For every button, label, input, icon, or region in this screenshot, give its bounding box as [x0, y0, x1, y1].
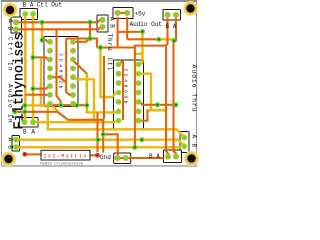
svg-text:+5v: +5v: [135, 11, 146, 18]
op-amp U2 pad left: [116, 71, 121, 76]
op-amp U2 pad left: [116, 109, 121, 114]
wire yellow pad2R jog: [141, 74, 152, 111]
op-amp U1 pad right: [71, 48, 76, 53]
wire orange ctl in A y22.3: [18, 20, 103, 23]
wire yellow y139.7 (Audio In A): [18, 140, 184, 146]
svg-text:B: B: [23, 128, 27, 135]
svg-text:Thru: Thru: [106, 34, 113, 52]
connector J4 +5v box: [113, 8, 133, 19]
op-amp U1 pad right: [71, 84, 76, 89]
svg-text:Gnd: Gnd: [100, 154, 111, 161]
wire orange audio out B stub: [166, 18, 168, 46]
svg-text:Ctl: Ctl: [106, 58, 113, 72]
via (24.8,111.8): [22, 109, 27, 114]
wire orange y104.8: [140, 102, 176, 105]
op-amp U1 pad right: [71, 66, 76, 71]
wire yellow y39.3 right: [159, 39, 174, 40]
svg-text:Audio Out: Audio Out: [130, 21, 162, 28]
node red pad 1: [22, 152, 27, 157]
op-amp U1 pad right: [71, 92, 76, 97]
wire orange via15 long: [15, 112, 103, 153]
wire orange IC2 interior: [119, 61, 124, 120]
connector J10 pad A: [173, 154, 178, 159]
node 2x2-Matrix label: [41, 150, 90, 160]
via (100.5,47.5): [98, 45, 103, 50]
wire yellow y129.3: [48, 105, 185, 137]
via (86.8,105.2): [84, 103, 89, 108]
via (76.9,105.2): [74, 103, 79, 108]
op-amp U2 pad right: [136, 71, 141, 76]
op-amp U2 pad right: [136, 62, 141, 67]
wire orange ic1 interior x66: [66, 39, 73, 95]
connector J7 Audio In box: [12, 136, 20, 152]
op-amp U2 pad right: [136, 118, 141, 123]
svg-text:Audio In: Audio In: [7, 84, 14, 124]
wire orange x90 vertical: [89, 22, 91, 38]
op-amp U1 pad left: [48, 66, 53, 71]
via (90,38.5): [87, 36, 92, 41]
connector J4 pad 1: [115, 10, 120, 15]
mounting hole bottom-right: [184, 151, 199, 166]
op-amp U2 CD4066 body: [114, 60, 144, 129]
via (157.4,104.8): [155, 102, 160, 107]
connector J3 pad A: [100, 17, 105, 22]
connector J8 pad 2: [123, 155, 128, 160]
op-amp U1 pad left: [48, 48, 53, 53]
op-amp U1 pad left: [48, 84, 53, 89]
via (174,40.6): [171, 38, 176, 43]
svg-text:Filthynoises: Filthynoises: [12, 33, 27, 130]
svg-text:B A Ctl Out: B A Ctl Out: [23, 2, 63, 9]
via (15,111.5): [12, 109, 17, 114]
op-amp U2 pad left: [116, 99, 121, 104]
via (33,57.4): [30, 55, 35, 60]
via (42,22.3): [39, 20, 44, 25]
op-amp U1 pad right: [71, 101, 76, 106]
op-amp U2 pad left: [116, 81, 121, 86]
via (42,40): [39, 37, 44, 42]
connector J6 pad A: [30, 120, 35, 125]
connector J4 pad 2: [125, 10, 130, 15]
op-amp U2 pad left: [116, 118, 121, 123]
connector J9 Audio Thru box: [180, 132, 189, 153]
wire yellow x42: [41, 22, 43, 40]
svg-text:A: A: [7, 138, 14, 142]
connector J7 pad A: [13, 137, 18, 142]
via (24.8,105.4): [22, 103, 27, 108]
wire yellow x142.5: [141, 32, 143, 65]
connector J2 pad B: [13, 27, 18, 32]
wire orange diag mid: [74, 62, 87, 74]
node red pad 2: [95, 153, 100, 158]
svg-text:©2021 Crunchysteve: ©2021 Crunchysteve: [40, 162, 84, 167]
wire yellow y122 to IC2 pin7: [33, 121, 119, 123]
connector J2 pad A: [13, 20, 18, 25]
op-amp U2 pad left: [116, 62, 121, 67]
wire orange gnd bar: [118, 157, 126, 159]
op-amp U2 pad left: [116, 90, 121, 95]
via (158.8,39.3): [156, 37, 161, 42]
svg-text:Audio Thru: Audio Thru: [191, 65, 198, 113]
mounting hole top-right: [183, 1, 198, 16]
wire orange x135 long: [134, 46, 136, 147]
wire orange right long x166: [166, 46, 168, 157]
wire yellow y110.3: [146, 109, 166, 111]
wire orange via33 row6: [33, 86, 50, 89]
connector J6 pad B: [22, 120, 27, 125]
wire orange matrix left: [27, 153, 41, 155]
wire orange y31.9: [118, 31, 143, 33]
wire orange row5 jog: [53, 77, 66, 82]
connector J10 pad B: [165, 154, 170, 159]
mounting hole bottom-left: [1, 152, 16, 167]
wire orange matrix right: [90, 154, 96, 156]
connector J5 pad B: [165, 12, 170, 17]
wire orange +5v left down: [117, 17, 119, 48]
wire orange +5v right y39.3: [126, 17, 128, 39]
op-amp U1 pad left: [48, 39, 53, 44]
svg-text:B A: B A: [166, 23, 177, 30]
wire orange red pad2 vertical: [96, 112, 98, 152]
op-amp U1 pad right: [71, 57, 76, 62]
connector J7 pad B: [13, 144, 18, 149]
svg-text:A: A: [31, 128, 35, 135]
op-amp U1 pad left: [48, 92, 53, 97]
op-amp U2 pad right: [136, 90, 141, 95]
wire orange y39.3: [127, 38, 159, 40]
via (61,105.2): [58, 103, 63, 108]
op-amp U1 pad right: [71, 75, 76, 80]
connector J8 Gnd box: [114, 153, 131, 164]
connector J9 pad A: [182, 135, 187, 140]
wire orange IC2 pin7 stub: [141, 110, 148, 120]
connector J8 pad 1: [115, 155, 120, 160]
board outline: [2, 1, 197, 166]
wire orange y134.3 to gnd: [103, 134, 118, 158]
connector J9 pad B: [182, 144, 187, 149]
connector J1 Ctl Out box: [20, 9, 38, 20]
via (33,88.6): [30, 86, 35, 91]
wire yellow y105.4 left: [25, 105, 58, 111]
op-amp U1 pad left: [48, 101, 53, 106]
connector J3 pad B: [100, 24, 105, 29]
svg-text:B: B: [7, 27, 14, 31]
via (103.2,134.3): [101, 132, 106, 137]
wire yellow x100: [101, 48, 119, 98]
op-amp U2 pad right: [136, 81, 141, 86]
connector J10 box: [164, 150, 182, 163]
op-amp U1 CD4052 body: [44, 37, 78, 107]
wire orange via33 row3: [33, 57, 50, 59]
wire yellow vertical x33 (Ctl Out A): [32, 17, 34, 122]
connector J2 Ctrl In box: [11, 17, 22, 33]
wire yellow y147 (Audio In B): [18, 146, 181, 148]
op-amp U1 pad left: [48, 75, 53, 80]
via (134.8,147.3): [132, 145, 137, 150]
wire orange ic1 pin16 stub: [75, 39, 89, 42]
wire orange IC1 interior x56.5: [57, 29, 62, 105]
wire orange ctl in B y29.3: [18, 27, 103, 29]
via (90,22.2): [87, 20, 92, 25]
wire orange via42 stub pin1: [42, 40, 50, 42]
wire orange via25 row7: [25, 94, 50, 96]
wire orange +5v bar: [118, 12, 128, 14]
connector J5 Audio Out box: [163, 10, 181, 21]
wire yellow vertical x25 (Ctl Out B): [24, 17, 26, 122]
wire orange gnd right: [126, 157, 164, 159]
svg-text:A: A: [7, 19, 14, 23]
connector J6 box: [19, 118, 38, 128]
wire orange y47.5: [97, 46, 166, 48]
svg-text:B A: B A: [149, 153, 160, 160]
wire orange audio out A stub: [174, 18, 176, 41]
via (141.8,139.7): [139, 137, 144, 142]
svg-text:A: A: [191, 135, 198, 139]
wire yellow y53.8: [135, 53, 143, 55]
connector J1 pad A: [30, 11, 35, 16]
wire orange right long x173.5: [174, 41, 177, 157]
wire yellow x94: [75, 78, 95, 123]
mounting hole top-left: [3, 3, 18, 18]
via (142.5,31.5): [140, 29, 145, 34]
svg-text:B: B: [7, 145, 14, 149]
via (175.8,104.8): [173, 102, 178, 107]
connector J3 Ctl Thru box: [97, 15, 108, 32]
op-amp U1 pad left: [48, 57, 53, 62]
wire yellow x41: [40, 58, 42, 105]
via (98,139.7): [95, 137, 100, 142]
svg-text:2x2-Matrix: 2x2-Matrix: [44, 154, 87, 160]
wire yellow x86.8: [87, 73, 119, 112]
wire orange x104: [103, 56, 105, 119]
svg-text:A B: A B: [109, 17, 116, 28]
wire orange y105.2 under IC1: [50, 104, 87, 105]
op-amp U2 pad right: [136, 109, 141, 114]
svg-text:B: B: [191, 144, 198, 148]
wire orange y38.5 interior: [66, 39, 97, 48]
op-amp U1 pad right: [71, 39, 76, 44]
connector J5 pad A: [173, 12, 178, 17]
connector J1 pad B: [23, 11, 28, 16]
op-amp U2 pad right: [136, 99, 141, 104]
